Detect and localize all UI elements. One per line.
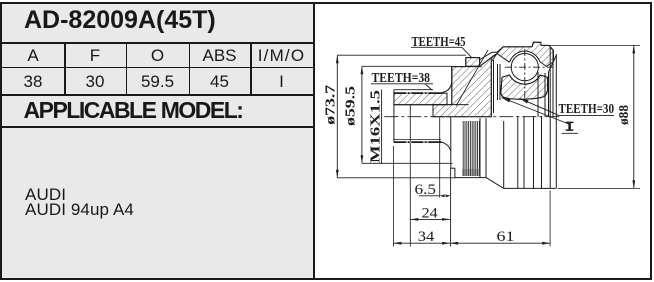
svg-text:24: 24 bbox=[422, 205, 439, 221]
svg-text:M16X1.5: M16X1.5 bbox=[369, 90, 384, 163]
svg-text:34: 34 bbox=[418, 229, 435, 245]
svg-text:ø73.7: ø73.7 bbox=[323, 85, 338, 125]
svg-text:TEETH=45: TEETH=45 bbox=[412, 35, 466, 50]
svg-text:TEETH=38: TEETH=38 bbox=[372, 71, 431, 86]
svg-text:ø88: ø88 bbox=[617, 105, 632, 125]
svg-text:61: 61 bbox=[497, 229, 515, 245]
svg-text:ø59.5: ø59.5 bbox=[343, 86, 358, 126]
svg-text:6.5: 6.5 bbox=[415, 182, 437, 198]
svg-text:TEETH=30: TEETH=30 bbox=[559, 102, 615, 117]
